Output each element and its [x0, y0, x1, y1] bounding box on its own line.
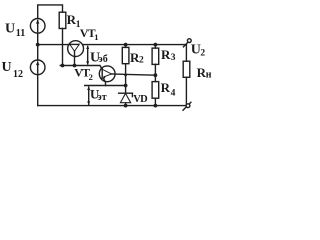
transistor VT2	[99, 66, 115, 82]
wire top rail from U11 to R1	[38, 5, 63, 19]
terminal U2 minus	[183, 102, 191, 110]
svg-text:U: U	[2, 60, 12, 75]
svg-text:12: 12	[13, 69, 23, 80]
svg-text:2: 2	[200, 48, 205, 58]
wire U12 bottom to bottom rail	[37, 75, 39, 106]
voltage arrow U_eb	[86, 45, 89, 65]
svg-text:11: 11	[16, 28, 25, 39]
wire VT2 base to divider tap	[112, 74, 156, 75]
diode VD (zener)	[119, 93, 133, 105]
svg-text:2: 2	[139, 56, 144, 66]
svg-text:н: н	[206, 69, 212, 80]
resistor R1	[59, 12, 66, 28]
resistor R3	[154, 43, 158, 47]
svg-text:VT: VT	[74, 66, 90, 80]
svg-text:эб: эб	[98, 54, 107, 65]
voltage arrow U_et	[87, 86, 90, 105]
svg-text:VD: VD	[133, 94, 148, 105]
wire emitter node line	[85, 85, 126, 87]
svg-text:1: 1	[94, 32, 98, 42]
terminal U2 plus	[183, 39, 191, 47]
wire VT1 emitter / output top rail	[83, 44, 186, 46]
resistor R4	[152, 82, 159, 99]
wire node A to VT1 collector	[38, 44, 70, 46]
resistor Rn load	[185, 45, 187, 62]
source U12	[30, 60, 45, 75]
source U11	[30, 19, 45, 34]
wire node A to U12	[37, 45, 39, 60]
svg-text:R: R	[161, 80, 171, 95]
svg-text:эт: эт	[97, 92, 106, 103]
wire VT2 emitter down to emitter node	[104, 79, 106, 86]
wire U11 bottom to node A	[37, 33, 39, 45]
svg-text:R: R	[161, 47, 171, 62]
svg-text:2: 2	[89, 72, 93, 82]
node A junction dot	[36, 43, 40, 47]
resistor R2	[124, 43, 128, 47]
svg-text:VT: VT	[80, 26, 96, 40]
svg-text:3: 3	[171, 53, 176, 63]
node base rail (R1, VT1 base, to VT2 collector)	[60, 66, 102, 70]
wire bottom rail	[38, 105, 187, 107]
svg-text:U: U	[5, 21, 15, 36]
svg-text:4: 4	[171, 88, 176, 98]
wire R1 bottom to base rail	[62, 29, 64, 66]
transistor VT1	[68, 41, 84, 66]
